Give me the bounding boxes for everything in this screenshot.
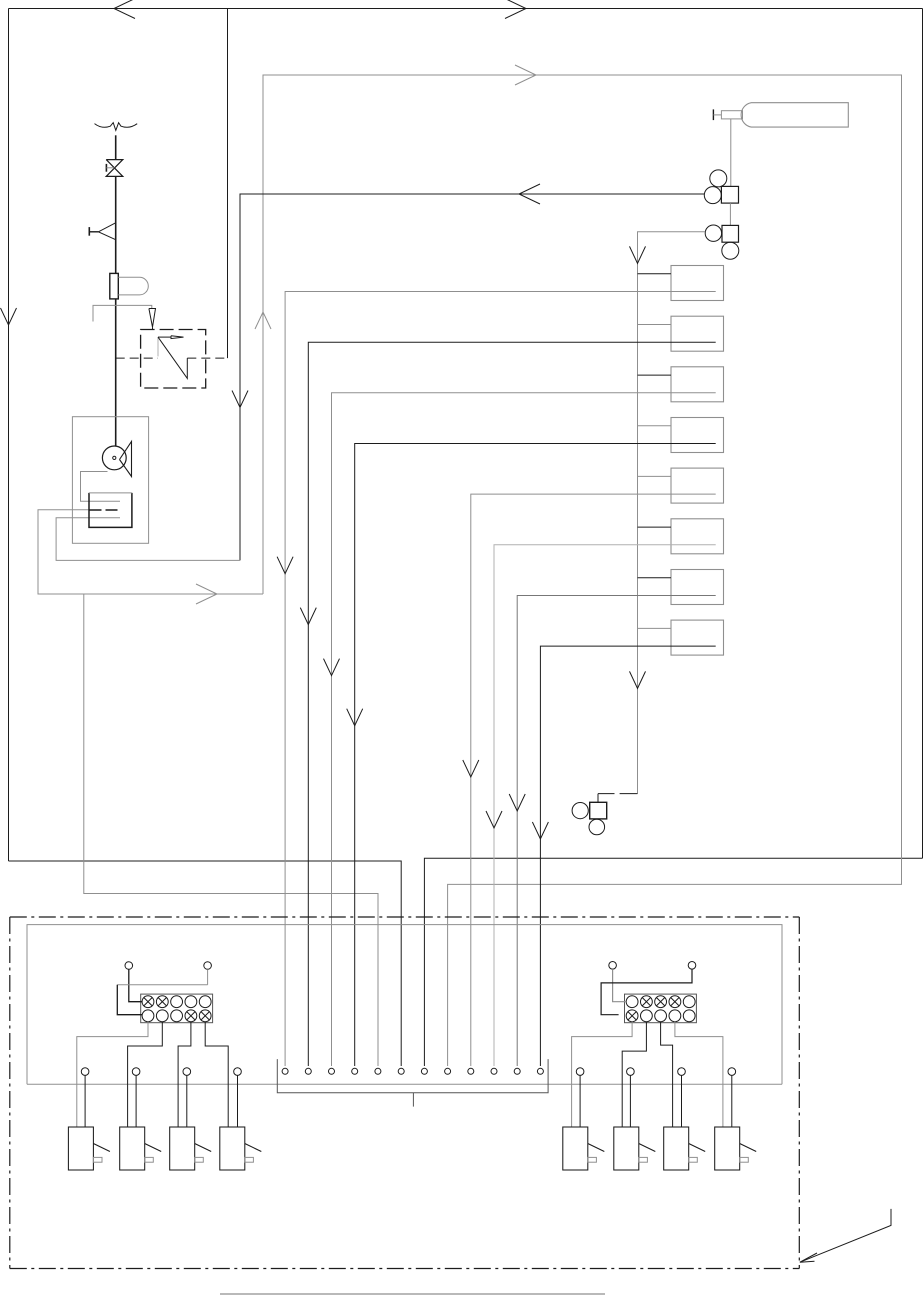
terminal block TB2 <box>625 994 697 1023</box>
solenoid release Y1 <box>68 1127 93 1170</box>
gauge block A <box>721 186 738 203</box>
wire: pilot line 7 staircase <box>517 596 716 1067</box>
pilot switch block <box>590 802 607 819</box>
pipe: supply riser upper <box>115 135 117 159</box>
control panel bottom rail <box>27 1083 782 1085</box>
wire: manifold branch 2 <box>638 324 672 326</box>
gauge B bottom circle <box>722 242 739 259</box>
title block top line <box>220 1293 605 1295</box>
terminal block TB1 <box>141 994 213 1023</box>
arrow up on x=263 riser <box>255 312 271 329</box>
tank level dash line <box>90 509 120 511</box>
pipe: riser to horn <box>115 299 117 446</box>
arrow right on y=594 line <box>196 584 217 604</box>
arrow right on top line <box>505 0 526 19</box>
solenoid release Y3 <box>170 1127 195 1170</box>
wire: pilot line 3 staircase <box>332 393 716 1066</box>
wire: pilot line 2 staircase <box>308 342 715 1066</box>
wire: TB2 right input loop <box>601 969 692 1015</box>
leader note arrow <box>800 1209 891 1262</box>
pipe: between gauge blocks <box>729 203 731 225</box>
wire: manifold header <box>638 232 706 794</box>
check valve CV1 <box>98 223 115 240</box>
terminal point T3 <box>329 1068 335 1074</box>
cylinder neck <box>721 111 742 119</box>
cylinder valve box 1 <box>671 266 724 301</box>
wire: bottom-right flow line to connector <box>424 858 922 1066</box>
wire: pilot line 5 staircase <box>471 494 716 1066</box>
solenoid release Y6 <box>614 1127 639 1170</box>
wire: TB1 left input drop <box>129 969 142 1001</box>
gauge B left circle <box>705 225 721 241</box>
wire: bottom-left flow line to connector <box>9 861 402 1066</box>
gauge block B <box>722 225 739 242</box>
arrow down on x=240 drop <box>232 391 248 408</box>
valve V1 (gate valve) <box>106 160 123 177</box>
wire: manifold branch 4 <box>638 425 672 427</box>
TB1 input terminal right <box>204 962 212 970</box>
arrow down pilot line 6 <box>486 811 502 828</box>
arrow down pilot line 8 <box>532 822 548 839</box>
terminal point T2 <box>305 1068 311 1074</box>
arrow left on top line <box>114 0 135 19</box>
regulator internal arrow <box>158 336 171 338</box>
terminal point T6 <box>398 1068 404 1074</box>
pipe: riser between valves <box>115 176 117 273</box>
wire: TB2-1 to solenoid Y5 <box>572 1022 633 1127</box>
TB2 input terminal left <box>609 962 617 970</box>
arrow down manifold top <box>630 246 646 263</box>
wire: TB1-5 to solenoid Y4 <box>205 1022 228 1127</box>
terminal point T9 <box>468 1068 474 1074</box>
wire: manifold branch 7 <box>638 577 672 579</box>
cylinder valve box 5 <box>671 468 724 503</box>
pipe: cylinder drop <box>730 119 732 186</box>
control cabinet dash-dot border top <box>10 916 800 918</box>
regulator R1 dashed enclosure <box>141 330 206 389</box>
wire: tank supply line <box>38 510 263 594</box>
wire: pilot line 8 staircase <box>540 646 715 1066</box>
wire: right border flow line <box>922 9 924 859</box>
wire: tank to x240 loop <box>56 518 240 561</box>
wire: manifold branch 1 <box>638 273 672 275</box>
alarm enclosure <box>72 417 148 544</box>
arrow down pilot line 2 <box>300 608 316 625</box>
dashed pilot line left <box>116 357 158 359</box>
terminal point T4 <box>352 1068 358 1074</box>
wire: manifold branch 6 <box>638 526 672 528</box>
cylinder valve stem <box>712 109 714 120</box>
arrow down on left flow line <box>1 308 17 325</box>
solenoid release Y8 <box>715 1127 740 1170</box>
arrow down manifold bottom <box>630 671 646 688</box>
TB2 input terminal right <box>688 962 696 970</box>
solenoid release Y4 <box>220 1127 245 1170</box>
pilot switch left circle <box>572 803 588 819</box>
solenoid release Y2 <box>120 1127 145 1170</box>
terminal group bracket <box>277 1059 548 1093</box>
horn circle <box>102 446 126 470</box>
wire: manifold tail dash <box>620 793 638 795</box>
control cabinet dash-dot border bottom <box>10 1268 800 1270</box>
wire: TB1-2 to solenoid Y2 <box>128 1022 163 1127</box>
pilot needle arrow <box>149 309 156 328</box>
gauge A left circle <box>704 187 721 204</box>
gauge A top circle <box>710 170 727 187</box>
pressure switch lamp body <box>110 273 119 299</box>
horn cone <box>120 442 132 477</box>
pilot tap hook <box>93 305 152 321</box>
dashed pilot line right <box>187 357 227 359</box>
control cabinet dash-dot border right <box>798 917 800 1269</box>
wire: manifold branch 5 <box>638 475 672 477</box>
wire: tank branch to connector 5 <box>84 594 378 1066</box>
wire: TB2-2 to solenoid Y6 <box>622 1022 646 1127</box>
wire: TB2 left input drop <box>613 969 627 1002</box>
wire: horn to tank loop <box>81 472 121 502</box>
terminal point T1 <box>282 1068 288 1074</box>
gas cylinder B1 <box>741 103 848 127</box>
terminal point T7 <box>421 1068 427 1074</box>
wire: gauge sense line <box>240 194 704 560</box>
wire: pilot line 4 staircase <box>355 444 716 1067</box>
pilot switch bottom circle <box>589 819 605 835</box>
cylinder valve box 3 <box>671 367 724 402</box>
arrow right on y=75 line <box>515 65 536 85</box>
arrow left on gauge line <box>519 184 540 204</box>
cylinder valve box 7 <box>671 570 724 605</box>
cylinder valve box 2 <box>671 316 724 351</box>
control cabinet dash-dot border left <box>9 917 11 1269</box>
wire: TB2-4 to solenoid Y8 <box>675 1022 723 1127</box>
water tank <box>89 493 132 528</box>
wire: manifold branch 8 <box>638 627 672 629</box>
wire: TB1-4 to solenoid Y3 <box>178 1022 191 1127</box>
solenoid release Y5 <box>563 1127 588 1170</box>
wire: TB1 right input loop <box>207 969 209 985</box>
cylinder valve box 6 <box>671 519 724 554</box>
arrow down pilot line 7 <box>509 794 525 811</box>
wire: x=227.5 drop from top line <box>227 9 229 359</box>
wire: TB2-3 to solenoid Y7 <box>661 1022 673 1127</box>
terminal point T12 <box>537 1068 543 1074</box>
arrow down pilot line 3 <box>324 659 340 676</box>
wire: pilot line 6 staircase <box>494 545 716 1066</box>
terminal point T5 <box>375 1068 381 1074</box>
arrow down pilot line 5 <box>463 760 479 777</box>
cylinder valve box 8 <box>671 620 724 655</box>
terminal point T10 <box>491 1068 497 1074</box>
pipe break symbol <box>95 123 138 131</box>
wire: manifold branch 3 <box>638 374 672 376</box>
arrow down pilot line 1 <box>277 557 293 574</box>
control panel inner box <box>27 925 782 1085</box>
cylinder valve box 4 <box>671 418 724 453</box>
wire: upper gray loop <box>263 75 902 1066</box>
wire: main top flow line <box>9 8 923 10</box>
TB1 input terminal left <box>125 962 133 970</box>
regulator internal diagonal <box>157 337 159 356</box>
terminal point T11 <box>514 1068 520 1074</box>
pressure switch dome <box>118 277 148 295</box>
solenoid release Y7 <box>664 1127 689 1170</box>
arrow down pilot line 4 <box>347 709 363 726</box>
wire: left border flow line down <box>8 9 10 862</box>
terminal point T8 <box>445 1068 451 1074</box>
wire: pilot line 1 staircase <box>285 292 716 1067</box>
wire: TB1-1 to solenoid Y1 <box>77 1022 148 1127</box>
